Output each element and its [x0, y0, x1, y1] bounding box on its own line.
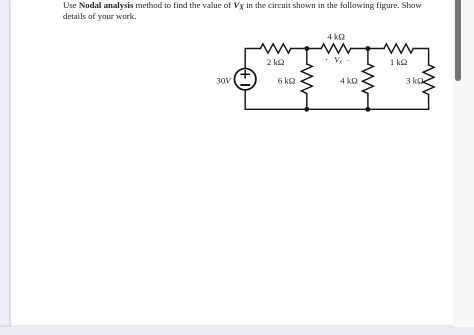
svg-text:4 kΩ: 4 kΩ [340, 76, 358, 86]
wire: R3 to top-right corner [413, 49, 428, 65]
wire: 6k branch bottom lead [306, 96, 308, 109]
wire: R6 bottom to bottom rail [428, 96, 430, 109]
scrollbar track [453, 0, 474, 327]
node 3 junction dot (bottom under 6k) [304, 107, 309, 112]
label 2 kOhm [267, 57, 285, 67]
node 1 junction dot [304, 46, 309, 51]
wire: bottom rail to source minus terminal [244, 90, 246, 109]
svg-text:1 kΩ: 1 kΩ [390, 57, 408, 67]
svg-text:2 kΩ: 2 kΩ [267, 57, 285, 67]
svg-text:+: + [325, 57, 329, 64]
svg-text:Vx: Vx [334, 56, 342, 66]
wire: top-left corner from source to R1 [245, 49, 260, 69]
wire: bottom rail [245, 108, 428, 110]
resistor R2 4k horizontal [321, 44, 351, 53]
resistor R3 1k horizontal [384, 44, 413, 53]
voltage source VS 30V [235, 69, 256, 90]
resistor R5 4k vertical [362, 64, 373, 96]
svg-text:3 kΩ: 3 kΩ [406, 76, 424, 86]
wire: R2 to R3 through node 2 [351, 48, 384, 50]
label 1 kOhm [390, 57, 408, 67]
svg-text:4 kΩ: 4 kΩ [327, 32, 345, 42]
resistor R6 3k vertical [423, 65, 434, 96]
node 4 junction dot (bottom under 4k) [366, 107, 371, 112]
svg-text:6 kΩ: 6 kΩ [278, 76, 296, 86]
label Vx plus polarity mark [325, 57, 329, 64]
resistor R4 6k vertical [301, 64, 312, 96]
wire: R1 to R2 through node 1 [291, 48, 321, 50]
VS plus sign [241, 71, 249, 78]
resistor R1 2k horizontal [260, 44, 290, 53]
label 3 kOhm [406, 76, 424, 86]
wire: 4k branch bottom lead [367, 96, 369, 109]
label 6 kOhm [278, 76, 296, 86]
wire: 6k branch top lead [306, 49, 308, 65]
scrollbar thumb [455, 0, 461, 81]
label Vx [334, 56, 342, 66]
label 4 kOhm vertical [340, 76, 358, 86]
label 4 kOhm top [327, 32, 345, 42]
node 2 junction dot [366, 46, 371, 51]
label Vx minus polarity mark [347, 57, 349, 64]
svg-text:-: - [347, 57, 349, 64]
wire: 4k branch top lead [367, 49, 369, 65]
left page-margin strip [0, 0, 9, 335]
svg-text:30V: 30V [216, 75, 232, 85]
label 30V source value [216, 75, 232, 85]
bottom page-margin strip [0, 327, 474, 335]
VS minus sign [241, 84, 249, 86]
